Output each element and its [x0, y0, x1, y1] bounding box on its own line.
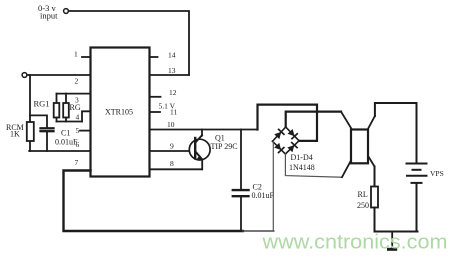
svg-text:C1: C1 — [61, 129, 70, 138]
svg-text:XTR105: XTR105 — [105, 108, 133, 117]
op-amp U1 XTR105 box — [91, 48, 150, 177]
battery VPS — [407, 163, 427, 165]
pin 7 wire — [64, 171, 244, 232]
wire node to bridge right corner — [258, 105, 318, 141]
svg-text:9: 9 — [170, 142, 174, 151]
transformer crossing wires — [341, 112, 375, 167]
pin 10 wire — [150, 129, 258, 131]
svg-text:14: 14 — [168, 51, 176, 60]
wire bridge left corner down to rail — [272, 141, 274, 231]
diode D4 (bottom-right edge, points to right corner) — [287, 143, 297, 153]
wire pin 4 jog — [82, 111, 91, 121]
svg-text:250: 250 — [357, 201, 369, 210]
pin 13 wire — [150, 74, 190, 76]
ground — [391, 232, 393, 249]
svg-text:3: 3 — [75, 96, 79, 105]
resistor RG — [65, 94, 67, 103]
wire transformer top to battery — [375, 103, 417, 163]
transformer core box — [351, 130, 368, 164]
wire pin 6 rail — [29, 150, 90, 152]
svg-text:VPS: VPS — [430, 169, 444, 178]
diode D2 (top-right edge, points to right corner) — [287, 129, 297, 139]
wire RG bottom rail — [57, 121, 83, 123]
svg-text:5: 5 — [76, 126, 80, 135]
wire left input to pin 2 — [27, 74, 91, 76]
svg-text:input: input — [40, 11, 58, 21]
pin 14 stub — [150, 56, 158, 58]
svg-text:8: 8 — [170, 159, 174, 168]
svg-text:1: 1 — [74, 50, 78, 59]
wire RL to bottom rail — [375, 208, 418, 232]
node 0-3v input label — [38, 3, 58, 21]
svg-text:www.cntronics.com: www.cntronics.com — [261, 231, 447, 254]
pin number labels — [74, 50, 177, 169]
pin 12 stub — [150, 96, 161, 98]
svg-text:1K: 1K — [10, 130, 20, 139]
capacitor C1 — [41, 127, 54, 129]
resistor RL 250 — [371, 187, 378, 208]
svg-text:6: 6 — [76, 140, 80, 149]
svg-text:10: 10 — [167, 120, 175, 129]
svg-text:0.01uF: 0.01uF — [252, 191, 275, 200]
wire transformer to RL — [374, 167, 376, 187]
transistor Q1 TIP29C — [189, 139, 210, 160]
pin 5 stub — [80, 130, 91, 132]
input terminal (top) — [64, 9, 69, 14]
svg-text:12: 12 — [169, 88, 177, 97]
wire rail to bridge left — [243, 230, 274, 232]
svg-text:7: 7 — [75, 158, 79, 167]
svg-text:13: 13 — [168, 66, 176, 75]
wire main left vertical — [29, 75, 31, 122]
wire top input to pin 13 — [69, 11, 190, 75]
wire pin 3 rail — [57, 93, 91, 95]
pin 8 wire — [150, 168, 203, 170]
wire jog to C1 — [30, 115, 47, 127]
capacitor C2 — [240, 130, 242, 190]
svg-text:RL: RL — [358, 190, 368, 199]
svg-text:2: 2 — [75, 77, 79, 86]
svg-text:D1-D4: D1-D4 — [291, 153, 313, 162]
svg-text:4: 4 — [76, 113, 80, 122]
svg-text:5.1 V: 5.1 V — [159, 102, 176, 111]
resistor RCM — [27, 122, 34, 141]
diode bridge D1-D4 1N4148 — [273, 127, 300, 154]
wire bridge bottom to transformer — [285, 154, 342, 177]
pin 9 wire — [150, 150, 192, 152]
svg-text:TIP 29C: TIP 29C — [211, 142, 238, 151]
diode D1 (top-left edge, points to top corner) — [274, 129, 284, 139]
resistor RG1 — [56, 94, 58, 103]
pin 1 stub — [82, 56, 91, 58]
pin 11 stub — [150, 111, 161, 113]
svg-text:1N4148: 1N4148 — [289, 163, 315, 172]
wire bridge top to transformer — [286, 112, 341, 127]
diode D3 (bottom-left edge, points to bottom corner) — [274, 143, 284, 153]
svg-text:RG1: RG1 — [34, 99, 50, 109]
input terminal (left) — [22, 73, 27, 78]
